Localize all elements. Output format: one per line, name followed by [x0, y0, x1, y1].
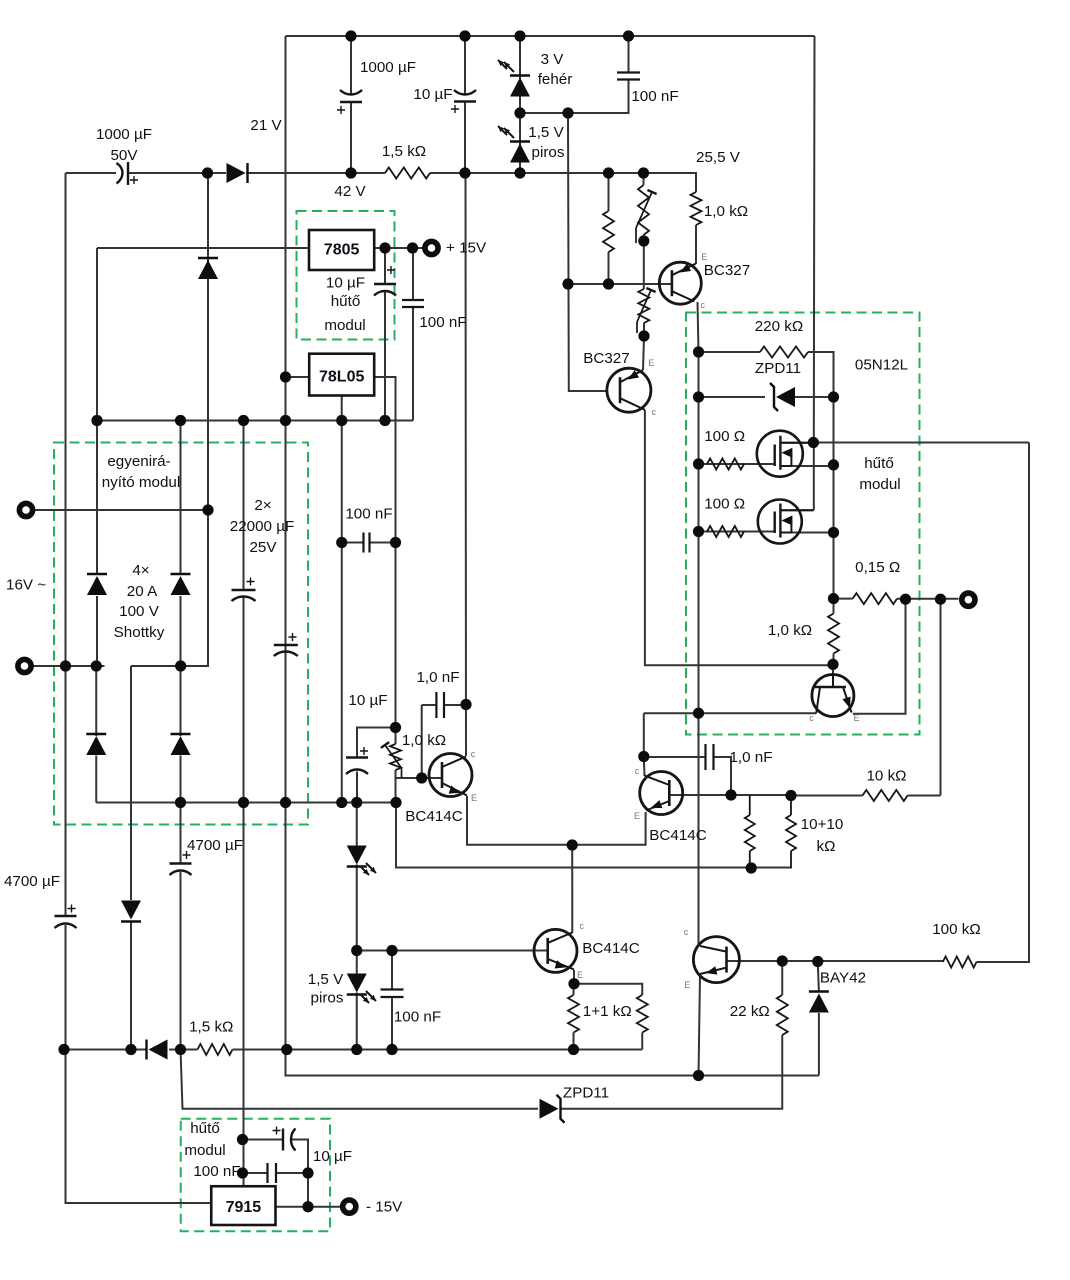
svg-text:1,5 kΩ: 1,5 kΩ: [382, 143, 426, 160]
svg-text:100 V: 100 V: [119, 603, 160, 620]
svg-text:100 nF: 100 nF: [345, 506, 392, 523]
svg-text:E: E: [577, 970, 583, 980]
svg-text:1+1 kΩ: 1+1 kΩ: [583, 1003, 632, 1020]
svg-text:BC327: BC327: [583, 350, 629, 367]
svg-text:4700 µF: 4700 µF: [4, 873, 60, 890]
svg-text:100 nF: 100 nF: [193, 1163, 240, 1180]
svg-text:hűtő: hűtő: [190, 1120, 220, 1137]
svg-text:c: c: [471, 749, 476, 759]
svg-text:1,5 V: 1,5 V: [308, 971, 344, 988]
svg-text:1,0 nF: 1,0 nF: [416, 669, 459, 686]
svg-text:BC414C: BC414C: [582, 940, 639, 957]
svg-text:21 V: 21 V: [250, 117, 282, 134]
svg-text:hűtő: hűtő: [331, 293, 361, 310]
svg-text:4700 µF: 4700 µF: [187, 837, 243, 854]
svg-text:16V ~: 16V ~: [6, 577, 46, 594]
svg-text:c: c: [579, 921, 584, 931]
svg-text:E: E: [471, 793, 477, 803]
svg-text:50V: 50V: [110, 147, 138, 164]
svg-text:100 kΩ: 100 kΩ: [932, 921, 981, 938]
svg-text:E: E: [648, 358, 654, 368]
svg-text:E: E: [634, 811, 640, 821]
svg-text:BC414C: BC414C: [405, 808, 462, 825]
svg-text:100 Ω: 100 Ω: [704, 428, 745, 445]
svg-text:10 kΩ: 10 kΩ: [866, 768, 906, 785]
svg-text:modul: modul: [324, 317, 365, 334]
svg-text:E: E: [701, 252, 707, 262]
svg-text:10 µF: 10 µF: [326, 275, 365, 292]
svg-text:100 nF: 100 nF: [631, 88, 678, 105]
svg-text:modul: modul: [859, 476, 900, 493]
svg-text:42 V: 42 V: [334, 183, 366, 200]
svg-text:1,5 kΩ: 1,5 kΩ: [189, 1018, 233, 1035]
svg-text:egyenirá-: egyenirá-: [107, 453, 170, 470]
svg-text:1,5 V: 1,5 V: [528, 124, 564, 141]
svg-text:10 µF: 10 µF: [313, 1148, 352, 1165]
svg-text:hűtő: hűtő: [864, 455, 894, 472]
svg-text:BC327: BC327: [704, 262, 750, 279]
svg-text:4×: 4×: [132, 562, 149, 579]
svg-text:3 V: 3 V: [541, 51, 565, 68]
svg-text:7805: 7805: [324, 242, 360, 259]
svg-text:piros: piros: [532, 144, 565, 161]
svg-text:100 nF: 100 nF: [394, 1008, 441, 1025]
svg-text:1000 µF: 1000 µF: [96, 126, 152, 143]
svg-text:1,0 kΩ: 1,0 kΩ: [402, 732, 446, 749]
svg-text:c: c: [635, 766, 640, 776]
svg-text:c: c: [651, 407, 656, 417]
svg-text:1,0 kΩ: 1,0 kΩ: [704, 203, 748, 220]
svg-text:2×: 2×: [254, 497, 271, 514]
svg-text:100 nF: 100 nF: [419, 314, 466, 331]
svg-text:c: c: [700, 300, 705, 310]
svg-text:E: E: [853, 713, 859, 723]
svg-text:piros: piros: [311, 990, 344, 1007]
svg-text:25V: 25V: [249, 539, 277, 556]
svg-text:10+10: 10+10: [801, 816, 844, 833]
svg-text:05N12L: 05N12L: [855, 357, 908, 374]
svg-text:modul: modul: [184, 1142, 225, 1159]
svg-text:BC414C: BC414C: [649, 827, 706, 844]
svg-text:Shottky: Shottky: [114, 624, 165, 641]
svg-text:kΩ: kΩ: [817, 838, 836, 855]
svg-text:22000 µF: 22000 µF: [230, 518, 294, 535]
svg-text:E: E: [684, 980, 690, 990]
svg-text:- 15V: - 15V: [366, 1199, 403, 1216]
svg-text:220 kΩ: 220 kΩ: [755, 318, 804, 335]
svg-text:+ 15V: + 15V: [446, 240, 487, 257]
svg-text:nyító modul: nyító modul: [102, 474, 181, 491]
svg-text:1000 µF: 1000 µF: [360, 59, 416, 76]
svg-text:78L05: 78L05: [319, 369, 364, 386]
svg-text:ZPD11: ZPD11: [563, 1085, 609, 1102]
svg-text:BAY42: BAY42: [820, 970, 866, 987]
svg-text:fehér: fehér: [538, 71, 573, 88]
svg-text:c: c: [684, 927, 689, 937]
svg-text:7915: 7915: [226, 1199, 262, 1216]
svg-text:22 kΩ: 22 kΩ: [730, 1003, 770, 1020]
svg-text:c: c: [809, 713, 814, 723]
svg-text:1,0 kΩ: 1,0 kΩ: [768, 622, 812, 639]
svg-text:25,5 V: 25,5 V: [696, 149, 741, 166]
svg-text:10 µF: 10 µF: [413, 86, 452, 103]
svg-text:100 Ω: 100 Ω: [704, 496, 745, 513]
svg-text:ZPD11: ZPD11: [755, 360, 801, 377]
svg-text:10 µF: 10 µF: [348, 692, 387, 709]
svg-text:20 A: 20 A: [127, 583, 158, 600]
svg-text:1,0 nF: 1,0 nF: [729, 749, 772, 766]
svg-text:0,15 Ω: 0,15 Ω: [855, 559, 900, 576]
